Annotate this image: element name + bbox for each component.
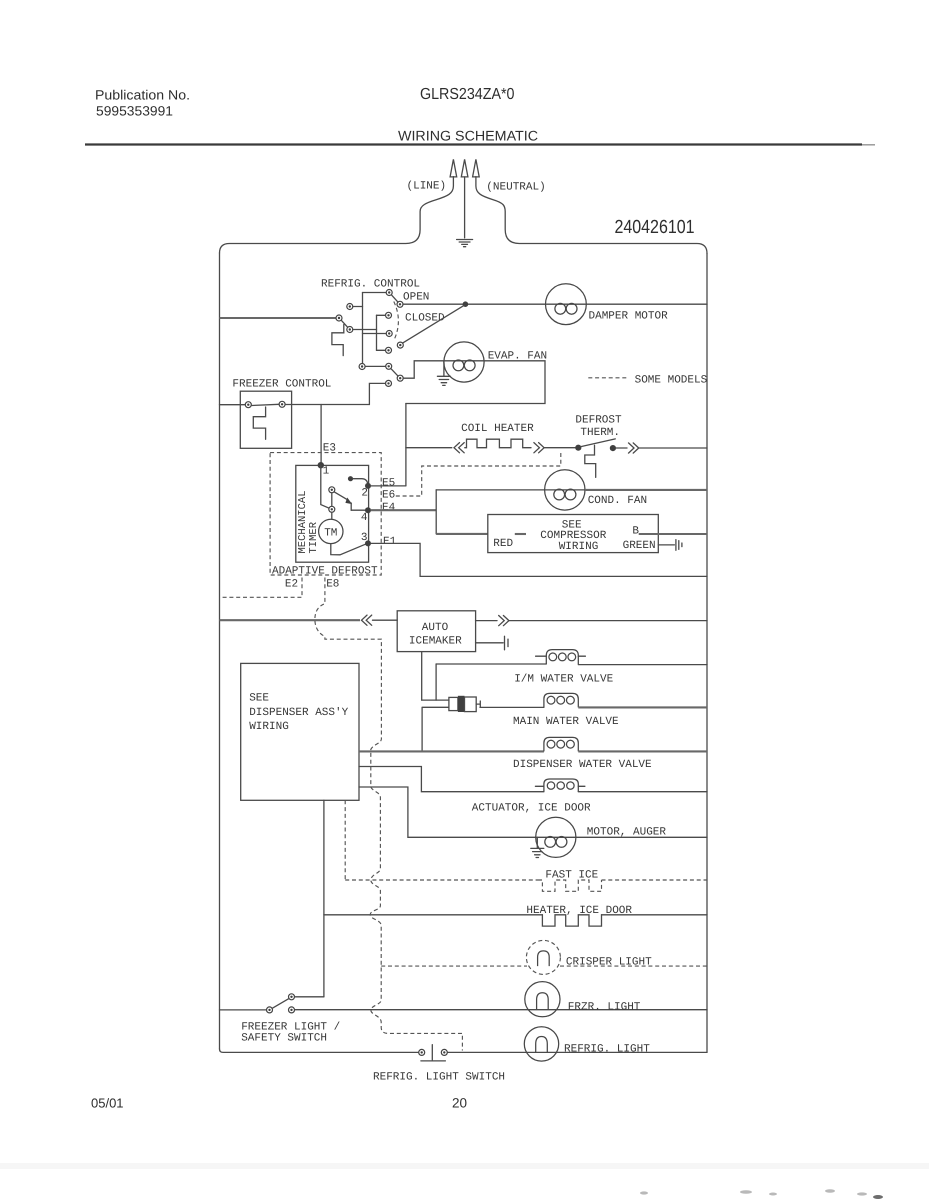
heater element R2: fast ice heater	[538, 880, 602, 891]
freezer light / safety switch contacts	[267, 1007, 273, 1013]
svg-text:I/M WATER VALVE: I/M WATER VALVE	[514, 674, 613, 686]
dashed wire E2 to left bus	[221, 578, 303, 598]
refrig light switch contacts	[419, 1049, 425, 1055]
lamp DS1: crisper light (dashed circle)	[526, 940, 560, 974]
svg-text:CRISPER LIGHT: CRISPER LIGHT	[566, 957, 652, 969]
wire: to right bus	[639, 447, 707, 449]
dashed wire E6 run to heater node	[396, 451, 561, 497]
wire: auger motor to right bus	[576, 836, 707, 838]
timer wiper pivot contacts	[329, 487, 335, 493]
svg-text:E5: E5	[382, 478, 395, 490]
wire: row4 lead	[377, 349, 386, 351]
node: timer terminal 1 junction	[318, 462, 324, 468]
svg-text:OPEN: OPEN	[403, 292, 429, 304]
dashed drop from dispenser box to fast ice	[344, 800, 346, 880]
svg-text:TIMER: TIMER	[308, 521, 320, 553]
svg-text:COND. FAN: COND. FAN	[588, 495, 647, 507]
wire: freezer light run	[295, 1009, 708, 1011]
contact: evap fan switch	[386, 363, 392, 369]
svg-text:E6: E6	[382, 490, 395, 502]
wire: E4 vertical split	[435, 490, 437, 534]
heater element R1: coil heater	[465, 439, 531, 448]
wire: left bus into freezer control	[220, 404, 246, 406]
svg-text:ADAPTIVE DEFROST: ADAPTIVE DEFROST	[272, 566, 378, 578]
wire: upper connector pin lead	[422, 699, 449, 701]
svg-text:FAST ICE: FAST ICE	[545, 870, 598, 882]
svg-text:GREEN: GREEN	[623, 540, 656, 552]
motor M2: evaporator fan	[444, 342, 484, 382]
svg-text:1: 1	[323, 466, 330, 478]
wire: icemaker box to chevron right	[476, 620, 497, 622]
svg-text:(NEUTRAL): (NEUTRAL)	[486, 182, 545, 194]
svg-text:E8: E8	[326, 579, 339, 591]
svg-text:WIRING SCHEMATIC: WIRING SCHEMATIC	[398, 128, 538, 144]
timer stationary contact for terminal 2	[348, 476, 353, 481]
motor M3: condenser fan	[545, 470, 585, 510]
wire: right-side vertical linking CLOSED and row4	[376, 315, 378, 350]
svg-text:20: 20	[452, 1096, 467, 1111]
wire: left bus to freezer light switch	[220, 1009, 267, 1011]
svg-text:TM: TM	[324, 528, 337, 540]
wire: thermostat to chevron	[616, 447, 627, 449]
wire: timer internal from terminal 1	[321, 465, 332, 509]
wire: diagonal from lower output to damper node	[403, 305, 464, 343]
motor M4: auger motor	[536, 817, 576, 857]
wire: E3 drop to defrost timer	[320, 405, 322, 466]
svg-text:RED: RED	[493, 538, 513, 550]
faint scan band	[0, 1163, 929, 1169]
solenoid L4: actuator ice door	[535, 785, 585, 787]
refrig control contact row 3	[386, 331, 392, 337]
scan noise bottom right	[640, 1189, 883, 1199]
wire: lower throw to right vertical	[353, 329, 377, 331]
wire: B lead to right bus	[639, 533, 707, 535]
wire: cabinet top edge with plug cutout, left part	[220, 177, 454, 253]
wire: to condenser fan	[436, 489, 544, 491]
refrig control output contact to damper	[397, 301, 403, 307]
svg-text:SOME MODELS: SOME MODELS	[635, 375, 708, 387]
wire: right bus of cabinet outline	[706, 254, 708, 1053]
wire: I/M valve to right bus	[578, 664, 707, 666]
chevron connector right of icemaker	[499, 616, 509, 626]
freezer control switch contacts	[245, 402, 251, 408]
svg-text:B: B	[632, 526, 639, 538]
mechanical timer box	[296, 465, 369, 562]
freezer control sensing element	[253, 407, 265, 439]
svg-text:MOTOR, AUGER: MOTOR, AUGER	[587, 827, 667, 839]
wire: dispenser valve to right bus	[578, 750, 707, 752]
timer wiper arm with arrow to terminal 4	[334, 492, 348, 500]
svg-text:FREEZER CONTROL: FREEZER CONTROL	[232, 379, 331, 391]
wire: E4 run from terminal 4	[371, 509, 436, 511]
wire: heater to defrost thermostat	[545, 447, 576, 449]
motor M1: damper motor	[546, 284, 587, 325]
svg-text:E1: E1	[383, 536, 397, 548]
svg-text:DEFROST: DEFROST	[575, 415, 622, 427]
freezer control wiper arm	[251, 404, 279, 405]
wire: solid drop from dispenser box to heater/freezer-light	[323, 800, 325, 997]
wire: top link to OPEN contact	[363, 292, 386, 294]
wiper arm to evap fan output	[391, 369, 398, 376]
wire: evap fan feed	[403, 361, 444, 378]
timer terminal 4	[365, 507, 371, 513]
svg-text:DISPENSER WATER VALVE: DISPENSER WATER VALVE	[513, 759, 652, 771]
plug prong arrow (neutral)	[473, 159, 480, 177]
wire: lower connector pin lead	[422, 707, 449, 751]
wire: RED stub inside box	[515, 533, 526, 535]
svg-text:WIRING: WIRING	[559, 541, 599, 553]
svg-text:05/01: 05/01	[91, 1096, 124, 1111]
wire: actuator branch from dispenser box	[359, 767, 544, 792]
refrig light switch plunger	[421, 1045, 446, 1061]
defrost thermostat bimetal element	[585, 445, 596, 477]
chevron connector (icemaker feed)	[362, 615, 372, 625]
wire: cabinet bottom edge (left of light switch)	[220, 1049, 419, 1052]
wire: main water valve feed	[480, 706, 544, 708]
refrig control wiper OPEN arm	[391, 295, 397, 302]
wire: main icemaker feed from left bus	[220, 619, 361, 621]
defrost thermostat contact right	[610, 445, 616, 451]
refrig control switch S1: wiper arm to lower throw	[341, 320, 347, 327]
wire: upper throw to common vertical	[353, 306, 363, 308]
wire: vertical node line (evap return / coil heater / E5)	[405, 404, 407, 486]
wire: aux contact lead down to freezer control wire	[369, 383, 385, 404]
auto icemaker box	[397, 611, 475, 652]
wire: E5 run from terminal 2	[371, 485, 406, 487]
defrost thermostat arm	[581, 439, 615, 447]
compressor box	[488, 515, 659, 553]
connector pins after GREEN	[676, 540, 679, 551]
wire: cabinet bottom edge (right of light switch)	[447, 1051, 707, 1053]
wire: terminal 4 internal lead	[351, 509, 368, 511]
svg-text:2: 2	[361, 488, 368, 500]
wire: CLOSED contact lead	[377, 314, 386, 316]
svg-text:4: 4	[361, 512, 368, 524]
wire: auger branch from dispenser box	[359, 787, 536, 837]
wire: coil heater feed	[406, 447, 452, 449]
solenoid L3: dispenser water valve	[544, 737, 578, 751]
ground at auger motor	[531, 837, 544, 857]
lamp DS3: refrigerator light	[524, 1027, 558, 1061]
refrig control contact (upper throw)	[347, 304, 353, 310]
wire: to right bus	[510, 620, 708, 622]
chevron connector right (coil heater)	[534, 443, 544, 453]
dashed line legend	[588, 377, 629, 379]
dashed wire E8 long run with hops	[315, 578, 463, 1051]
wire: chevron to icemaker box	[373, 619, 398, 621]
contact: lower aux contact	[386, 380, 392, 386]
refrig control contact row 4	[386, 347, 392, 353]
solenoid L1: I/M water valve	[536, 655, 586, 657]
wire: RED lead into compressor box	[436, 533, 488, 535]
wire: common vertical bus of refrig control	[362, 293, 364, 364]
wire: damper motor to right bus	[586, 303, 707, 305]
wire: dispenser water valve feed	[359, 750, 544, 752]
refrig control OPEN contact	[386, 290, 392, 296]
svg-text:240426101: 240426101	[615, 217, 695, 238]
dispenser assy box	[241, 663, 359, 800]
switch: evap-fan pole contact	[359, 364, 365, 370]
svg-text:(LINE): (LINE)	[407, 181, 447, 193]
wire: ice door heater to right bus	[602, 914, 708, 916]
refrig control lower output contact	[397, 342, 403, 348]
solenoid L2: main water valve	[544, 693, 578, 707]
wire: feed from left bus to refrig control pole	[220, 317, 337, 319]
ground symbol under plug	[457, 240, 473, 247]
svg-text:WIRING: WIRING	[249, 721, 289, 733]
svg-text:REFRIG. CONTROL: REFRIG. CONTROL	[321, 279, 420, 291]
svg-text:MAIN WATER VALVE: MAIN WATER VALVE	[513, 716, 619, 728]
refrig control switch S1: pole contact	[336, 315, 342, 321]
svg-text:ICEMAKER: ICEMAKER	[409, 636, 462, 648]
svg-text:FRZR. LIGHT: FRZR. LIGHT	[568, 1002, 641, 1014]
svg-text:GLRS234ZA*0: GLRS234ZA*0	[420, 86, 515, 103]
svg-text:ACTUATOR, ICE DOOR: ACTUATOR, ICE DOOR	[472, 803, 591, 815]
dashed wire: crisper light feed	[381, 965, 527, 967]
svg-text:E2: E2	[285, 579, 298, 591]
wire: damper motor feed	[403, 303, 545, 305]
node: damper feed junction	[463, 301, 469, 307]
wire: cond fan to right bus	[585, 489, 707, 491]
dashed wire: crisper light to right bus	[560, 965, 707, 967]
svg-text:DISPENSER ASS'Y: DISPENSER ASS'Y	[249, 707, 348, 719]
svg-text:COIL HEATER: COIL HEATER	[461, 423, 534, 435]
heater element R3: ice door heater	[542, 915, 601, 926]
water valve connector plug	[449, 697, 458, 710]
defrost thermostat contact left	[575, 445, 581, 451]
refrig control contact (lower throw)	[347, 327, 353, 333]
plug prong arrow (line)	[450, 159, 457, 177]
timer terminal 2	[365, 483, 371, 489]
wire: icemaker drop to valve connector	[421, 652, 423, 701]
ground at evap fan	[437, 361, 450, 386]
wire: row3 lead to common vertical	[363, 333, 387, 335]
svg-text:THERM.: THERM.	[580, 427, 620, 439]
freezer light switch arm	[272, 999, 289, 1009]
wire: actuator to right bus	[578, 791, 707, 793]
wire: cabinet top edge with plug cutout, right part	[476, 177, 707, 254]
plug prong arrow (ground), with shaft	[464, 177, 466, 238]
svg-text:5995353991: 5995353991	[96, 104, 173, 119]
svg-text:AUTO: AUTO	[422, 622, 449, 634]
dashed wire: fast ice to right bus	[602, 879, 708, 881]
svg-text:E4: E4	[382, 502, 396, 514]
wire: left bus of cabinet outline	[219, 253, 221, 1049]
refrig control CLOSED contact	[386, 312, 392, 318]
chevron connector right of thermostat	[629, 443, 639, 453]
svg-text:SEE: SEE	[249, 693, 269, 705]
svg-text:DAMPER MOTOR: DAMPER MOTOR	[589, 311, 669, 323]
wire: ice door heater feed	[324, 914, 543, 916]
chevron connector left (coil heater)	[454, 443, 464, 453]
wire: link between pole and second contact	[365, 365, 386, 367]
adaptive defrost dashed enclosure	[270, 453, 381, 575]
svg-text:CLOSED: CLOSED	[405, 313, 445, 325]
wire: I/M valve branch vertical	[435, 664, 437, 700]
wire: upper throw to solid drop	[295, 996, 324, 998]
timer terminal 3	[365, 540, 371, 546]
dashed wiper travel arc	[394, 302, 399, 341]
timer motor TM circle	[319, 519, 343, 543]
wire: main valve to right bus	[578, 706, 707, 708]
wire: hook from contact to terminal 2	[353, 479, 368, 486]
wire: I/M water valve feed	[436, 663, 546, 665]
svg-text:Publication No.: Publication No.	[95, 88, 190, 103]
wire: TM motor to terminal 3	[331, 544, 366, 555]
contact: evap fan output	[397, 375, 403, 381]
connector pins at icemaker stub	[504, 636, 506, 650]
wire: pivot to TM motor	[331, 512, 333, 519]
refrig control sensing element zigzag	[332, 325, 344, 356]
wire: icemaker aux stub	[476, 642, 504, 644]
freezer control box	[240, 391, 291, 448]
wire: E1 run from terminal 3 to right bus	[371, 543, 707, 576]
dashed wire: fast ice feed	[345, 879, 538, 881]
svg-text:REFRIG. LIGHT SWITCH: REFRIG. LIGHT SWITCH	[373, 1072, 505, 1084]
wire: freezer control output	[285, 404, 369, 406]
svg-text:REFRIG. LIGHT: REFRIG. LIGHT	[564, 1044, 650, 1056]
svg-text:3: 3	[361, 532, 368, 544]
wire: evap fan return to coil heater node	[406, 361, 545, 404]
lamp DS2: freezer light	[525, 982, 560, 1017]
svg-text:SAFETY SWITCH: SAFETY SWITCH	[241, 1033, 327, 1045]
title rule	[85, 143, 862, 145]
wire: GREEN lead to connector	[658, 544, 674, 546]
